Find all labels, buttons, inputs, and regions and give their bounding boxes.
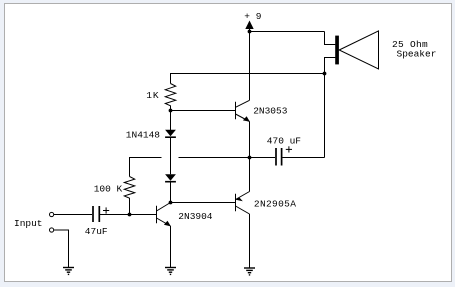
wire: C1 to Q1 base: [100, 214, 157, 216]
power symbol +9V: arrow: [245, 21, 253, 30]
wire: speaker bottom lead: [325, 58, 336, 74]
label: + (C2 polarity): [286, 146, 292, 152]
svg-text:47uF: 47uF: [85, 226, 108, 237]
wire: output node to C2: [250, 157, 276, 159]
transistor Q1 2N3904: [157, 203, 171, 227]
ground: input: [63, 268, 74, 275]
wire: Q3 collector to ground: [249, 214, 251, 268]
diode D2 1N4148: [165, 174, 176, 181]
resistor 100K: [124, 177, 134, 215]
label: + (C1 polarity): [103, 207, 109, 213]
wire: input terminal to C1: [54, 214, 92, 216]
wire: feedback left segment with corner to 100K: [130, 158, 162, 177]
svg-text:470 uF: 470 uF: [267, 135, 302, 146]
terminal: input ground: [50, 228, 54, 232]
svg-text:1K: 1K: [146, 90, 159, 101]
svg-text:+ 9: + 9: [244, 11, 261, 22]
wire: +9 rail to speaker: [250, 31, 325, 33]
wire: node to Q2 base: [171, 110, 236, 112]
ground: Q3 collector: [244, 268, 255, 275]
svg-text:Input: Input: [14, 218, 43, 229]
capacitor C2 470uF: [276, 148, 282, 166]
node: +9 junction: [248, 30, 252, 34]
wire: arrow to +9 node: [249, 29, 251, 32]
terminal: input signal: [50, 212, 54, 216]
wire: Q2 emitter to output node: [249, 122, 251, 158]
wire: Q2 collector to +9 rail: [249, 32, 251, 101]
wire: node to D1 anode: [170, 111, 172, 131]
speaker LS1: frame bar: [335, 36, 339, 65]
svg-text:2N3053: 2N3053: [253, 106, 288, 117]
wire: bias node to Q3 base: [171, 202, 236, 204]
wire: D2 cathode to bias node: [170, 182, 172, 203]
node: Q1 base junction: [128, 213, 132, 217]
svg-text:2N2905A: 2N2905A: [254, 199, 296, 210]
node: speaker return junction: [323, 72, 327, 76]
transistor Q2 2N3053: [236, 100, 250, 122]
wire: speaker top lead: [325, 32, 336, 45]
svg-text:Speaker: Speaker: [397, 49, 437, 60]
wire: output node to Q3 emitter: [249, 158, 251, 192]
wire: input jack to ground: [54, 230, 69, 268]
speaker LS1: cone: [339, 31, 378, 69]
wire: speaker return down to C2: [324, 74, 326, 158]
wire: C2 to speaker return: [283, 157, 325, 159]
svg-text:100 K: 100 K: [94, 183, 123, 194]
ground: Q1 emitter: [165, 268, 176, 275]
wire: feedback right segment (crossover gap): [179, 157, 250, 159]
node: driver base junction: [169, 109, 173, 113]
transistor Q3 2N2905A: [236, 192, 250, 215]
capacitor C1 47uF: [93, 206, 99, 222]
wire: Q1 emitter to ground: [170, 226, 172, 268]
svg-text:2N3904: 2N3904: [178, 211, 213, 222]
node: Q1 collector bias node: [169, 201, 173, 205]
wire: D1 cathode to D2 anode: [170, 138, 172, 175]
node: output node: [248, 156, 252, 160]
resistor 1K: [165, 84, 175, 111]
diode D1 1N4148: [165, 130, 176, 137]
svg-text:1N4148: 1N4148: [126, 129, 161, 140]
wire: bootstrap rail to 1K top: [171, 74, 325, 84]
